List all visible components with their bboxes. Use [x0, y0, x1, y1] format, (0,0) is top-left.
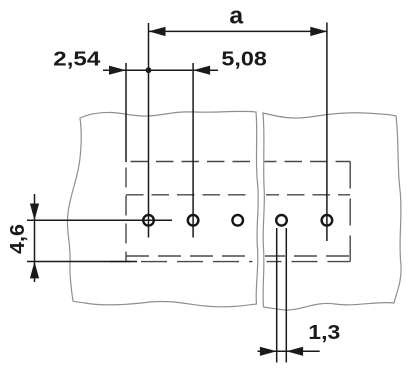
hole 3: [232, 215, 243, 226]
1,3 right extension line: [285, 228, 287, 363]
arrow 5,08 (points left at x=193.1): [193, 66, 210, 75]
dimension line 2,54 / 5,08: [103, 69, 218, 71]
dashed housing outline: [110, 162, 350, 262]
extension line hole 5: [326, 23, 328, 242]
housing left edge: [125, 162, 127, 262]
extension line hole 2: [192, 63, 194, 238]
hole 2: [188, 215, 199, 226]
dimension line a: [149, 30, 328, 32]
dimension line 1,3: [258, 350, 320, 352]
arrow 4,6 top (points down): [30, 204, 39, 221]
dimension point dot at hole 1: [146, 67, 152, 73]
svg-text:5,08: 5,08: [221, 49, 267, 71]
arrow 1,3 left (points right): [260, 347, 277, 356]
arrow a left: [149, 27, 166, 36]
housing bottom outer edge: [110, 261, 253, 263]
arrow 2,54 (points right at x=126): [109, 66, 126, 75]
dimension line 4,6 vertical: [34, 194, 36, 282]
hole 1: [143, 215, 154, 226]
PCB section left (torn-edge board outline): [67, 111, 258, 307]
1,3 left extension line: [276, 228, 278, 363]
centerline hole 1 horizontal / 4,6 top extension: [27, 219, 172, 221]
4,6 bottom extension line: [27, 261, 137, 263]
hole 4: [276, 215, 287, 226]
svg-text:1,3: 1,3: [308, 322, 340, 344]
svg-text:2,54: 2,54: [53, 49, 101, 71]
arrow 1,3 right (points left): [286, 347, 303, 356]
PCB section right (torn-edge board outline): [263, 113, 401, 310]
housing top edge: [126, 161, 253, 163]
housing bottom inner edge: [126, 255, 253, 257]
svg-text:a: a: [229, 3, 243, 30]
extension line hole 1: [148, 23, 150, 238]
extension line housing left: [125, 63, 127, 162]
housing mid edge: [126, 194, 253, 196]
hole 5: [322, 215, 333, 226]
housing right edge: [349, 162, 351, 262]
svg-text:4,6: 4,6: [7, 224, 29, 254]
arrow 4,6 bottom (points up): [30, 262, 39, 279]
arrow a right: [310, 27, 327, 36]
